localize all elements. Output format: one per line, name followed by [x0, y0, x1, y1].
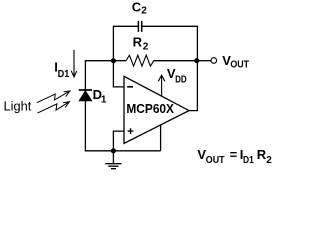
wire: inverting input from node A	[113, 61, 124, 87]
svg-text:=: =	[230, 147, 238, 162]
svg-text:2: 2	[143, 41, 149, 52]
svg-text:D1: D1	[243, 155, 254, 166]
svg-text:1: 1	[101, 95, 107, 106]
svg-text:2: 2	[141, 6, 147, 17]
label R2	[133, 34, 149, 52]
svg-text:MCP60X: MCP60X	[126, 101, 174, 116]
label D1	[93, 87, 107, 106]
wire: non-inverting input to ground rail	[113, 131, 124, 151]
op-amp minus sign	[127, 86, 133, 88]
current arrow ID1	[71, 50, 77, 77]
svg-text:R: R	[257, 147, 267, 162]
svg-text:OUT: OUT	[230, 60, 249, 71]
VDD arrow	[158, 75, 165, 96]
label VDD	[167, 66, 187, 86]
wire: node A left to photodiode top	[85, 61, 113, 90]
label C2	[132, 0, 148, 17]
wire: op-amp output up to node B	[189, 61, 197, 111]
op-amp U1 triangle	[124, 76, 189, 143]
wire: VSS pin to ground rail	[160, 125, 162, 151]
node B junction dot	[194, 58, 199, 63]
svg-text:D1: D1	[58, 69, 70, 80]
svg-text:Light: Light	[4, 99, 32, 114]
svg-text:OUT: OUT	[206, 155, 225, 166]
svg-text:DD: DD	[175, 74, 187, 85]
label ID1	[54, 60, 69, 81]
photodiode D1	[79, 90, 92, 101]
light arrow 2	[37, 102, 69, 113]
output terminal circle	[211, 58, 217, 64]
light arrow 1	[37, 91, 70, 103]
svg-text:2: 2	[266, 155, 272, 166]
svg-text:R: R	[133, 34, 143, 49]
wire: R2 row from node A to node B	[113, 60, 196, 62]
wire: photodiode bottom to ground rail	[85, 101, 160, 151]
wire: top feedback rail (node A up, across C2 row, down to node B)	[113, 26, 197, 60]
op-amp plus sign	[128, 128, 134, 134]
ground	[105, 151, 121, 169]
wire: node B to output terminal	[197, 60, 211, 62]
label VOUT	[222, 53, 249, 70]
resistor R2	[126, 55, 154, 66]
svg-text:C: C	[132, 0, 142, 15]
node A junction dot	[111, 58, 116, 63]
capacitor C2	[138, 21, 141, 32]
ground node junction dot	[111, 148, 116, 153]
equation VOUT = ID1 R2	[197, 147, 272, 166]
